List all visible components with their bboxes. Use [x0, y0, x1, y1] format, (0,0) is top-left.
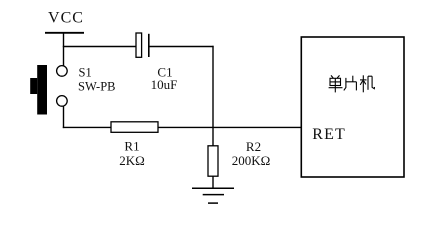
svg-text:S1: S1 — [79, 65, 92, 79]
switch S1 actuator bar — [37, 65, 47, 115]
wire R2 bottom to ground — [212, 176, 214, 188]
wire VCC bar down to switch — [63, 33, 65, 66]
svg-text:2KΩ: 2KΩ — [119, 153, 145, 168]
svg-text:10uF: 10uF — [151, 77, 178, 92]
wire branch to capacitor C1 left — [63, 46, 136, 48]
wire switch bottom down — [63, 106, 65, 128]
svg-text:R1: R1 — [124, 138, 139, 153]
wire C1 right to corner — [149, 46, 214, 48]
switch S1 top terminal circle — [57, 66, 68, 77]
MCU title hanzi JI (machine) — [360, 75, 375, 92]
MCU title hanzi DAN (single) — [329, 75, 343, 92]
capacitor C1 right plate — [148, 34, 150, 57]
VCC power bar symbol — [45, 32, 84, 34]
wire vertical down from C1 corner to R2 — [212, 46, 214, 146]
MCU title hanzi PIAN (chip) — [344, 76, 357, 91]
svg-text:VCC: VCC — [48, 10, 84, 27]
svg-text:RET: RET — [312, 126, 346, 143]
ground symbol bar 2 — [203, 194, 224, 196]
MCU U1 box (microcontroller) — [301, 37, 404, 177]
resistor R2 body — [208, 146, 218, 176]
svg-text:R2: R2 — [246, 139, 261, 154]
resistor R1 body — [111, 122, 158, 133]
switch S1 knob — [30, 78, 37, 94]
svg-text:SW-PB: SW-PB — [78, 79, 116, 93]
svg-text:200KΩ: 200KΩ — [232, 153, 271, 168]
capacitor C1 left plate — [136, 33, 142, 57]
wire R1 right to MCU box (RET net) — [158, 126, 302, 128]
ground symbol bar 3 — [208, 202, 218, 204]
ground symbol bar 1 — [192, 187, 234, 189]
switch S1 bottom terminal circle — [57, 96, 68, 107]
wire to R1 left — [63, 126, 111, 128]
